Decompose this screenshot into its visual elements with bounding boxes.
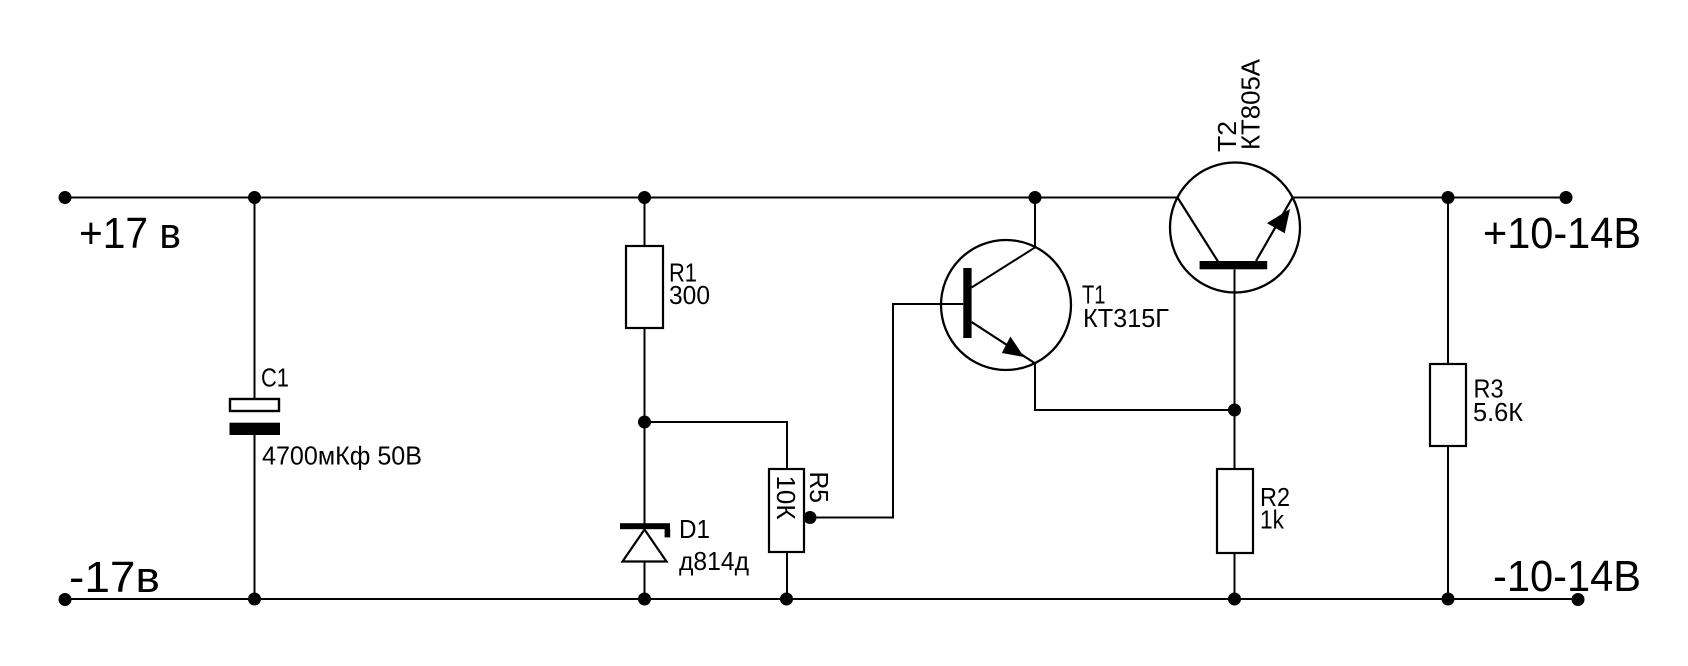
resistor R5 (769, 469, 804, 552)
node junction R3 bottom (1442, 593, 1455, 606)
node junction C1 bottom (248, 593, 261, 606)
svg-text:1k: 1k (1260, 505, 1285, 535)
node B junction T1 emitter / T2 base / R2 (1228, 404, 1241, 417)
wire R3 bottom lead (1447, 446, 1449, 599)
wire R2 bottom lead (1234, 553, 1236, 599)
svg-text:4700мКф 50В: 4700мКф 50В (262, 441, 422, 471)
wire T1 collector to top rail (972, 198, 1035, 288)
wire D1 cathode lead (644, 422, 646, 524)
node junction R3 top (1442, 191, 1455, 204)
transistor T1 (941, 240, 1071, 370)
svg-text:C1: C1 (261, 363, 289, 393)
wire R1 top lead (644, 198, 646, 247)
svg-text:300: 300 (669, 280, 710, 310)
wire top positive rail left segment (+17v to T2 collector) (65, 197, 1178, 199)
resistor R2 (1217, 469, 1253, 553)
wire R5 bottom lead (786, 552, 788, 599)
svg-text:-10-14В: -10-14В (1493, 552, 1641, 601)
node junction R5 tap (804, 511, 817, 524)
node junction R2 bottom (1228, 593, 1241, 606)
wire R5 tap to T1 base (810, 304, 963, 518)
node A junction R1/D1/R5 (638, 416, 651, 429)
zener diode D1 (620, 523, 670, 561)
wire D1 anode lead (644, 562, 646, 600)
svg-text:+17 в: +17 в (79, 209, 181, 258)
node junction T1 collector (1029, 191, 1042, 204)
svg-text:R5: R5 (804, 472, 834, 504)
svg-text:КТ315Г: КТ315Г (1083, 303, 1169, 333)
wire top positive rail right segment (T2 emitter to +10-14V) (1293, 197, 1567, 199)
svg-text:5.6К: 5.6К (1473, 397, 1523, 427)
svg-text:D1: D1 (679, 514, 710, 544)
capacitor C1 (230, 399, 281, 435)
resistor R3 (1430, 364, 1466, 446)
svg-text:+10-14В: +10-14В (1483, 209, 1641, 258)
wire T2 base through node B to R2 top (1234, 270, 1236, 470)
svg-text:КТ805А: КТ805А (1236, 58, 1266, 150)
node terminal +17v input (59, 191, 72, 204)
svg-text:д814д: д814д (679, 546, 749, 576)
wire node A to R5 top (645, 422, 788, 469)
node junction R5 bottom (780, 593, 793, 606)
node junction D1 anode (638, 593, 651, 606)
wire T1 emitter to node B (1035, 363, 1235, 410)
node terminal +10-14V output (1560, 191, 1573, 204)
node junction C1 top (248, 191, 261, 204)
resistor R1 (626, 246, 663, 328)
wire R1 bottom lead to node A (644, 328, 646, 422)
node terminal -17v input (59, 593, 72, 606)
wire C1 bottom lead (254, 435, 256, 599)
wire C1 top lead (254, 198, 256, 400)
transistor T2 (1170, 163, 1300, 293)
node junction R1 top (638, 191, 651, 204)
wire R3 top lead (1447, 198, 1449, 365)
node terminal -10-14V output (1572, 593, 1585, 606)
svg-text:10К: 10К (771, 476, 801, 520)
svg-text:-17в: -17в (69, 553, 160, 602)
wire bottom negative rail (-17v to -10-14V) (65, 598, 1578, 600)
